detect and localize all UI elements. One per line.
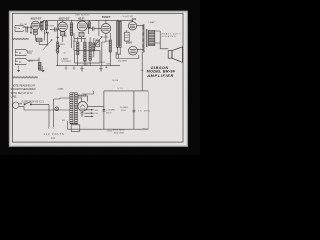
svg-text:NOTE: READINGS AT: NOTE: READINGS AT — [12, 83, 35, 87]
screen resistor pair tall hatched — [117, 21, 119, 47]
cathode resistor V1 box — [33, 30, 37, 35]
pilot lamp — [55, 107, 59, 111]
wire plates to OT — [137, 26, 144, 50]
wire to transformer primary — [44, 98, 70, 110]
svg-text:450 V: 450 V — [106, 113, 112, 115]
plate resistor V2 hatched — [70, 23, 73, 36]
power switch S1 — [25, 102, 31, 105]
ground symbol 1b — [73, 66, 75, 70]
cap below rectifier — [81, 111, 84, 117]
wire AC drop pair — [49, 99, 54, 127]
box below transformer — [71, 125, 80, 132]
wire OT B+ — [143, 51, 145, 52]
resistor hatched below V3 — [84, 42, 86, 61]
wire ground bus — [56, 65, 120, 67]
svg-text:+450 V: +450 V — [141, 128, 148, 130]
svg-text:B-20A: B-20A — [112, 79, 118, 82]
AC plug P1 — [13, 102, 19, 108]
capacitor small box mid — [96, 41, 100, 47]
svg-text:SPKR FIELD: SPKR FIELD — [113, 130, 126, 132]
tube V3 6SJ7 — [77, 21, 87, 31]
volume pot P1 with arrow — [57, 21, 59, 38]
svg-text:C-BATT: C-BATT — [148, 21, 156, 24]
input jack J3 — [15, 59, 27, 65]
label scribble row 2 — [12, 76, 38, 78]
pot arrow diagonal — [95, 37, 102, 46]
svg-text:6SJ7-GT: 6SJ7-GT — [31, 16, 42, 20]
cathode box V2 — [61, 32, 65, 36]
power transformer T2 — [70, 93, 78, 124]
wire transformer to rectifier — [78, 96, 88, 102]
output tube V6 6V6 — [129, 46, 138, 55]
ground symbol 1 — [65, 66, 67, 70]
ground symbol 3 — [99, 66, 102, 71]
resistor hatched at jacks — [38, 63, 41, 71]
svg-text:6V6GT: 6V6GT — [102, 15, 111, 19]
coupling cap C2 — [55, 27, 56, 31]
wire B+ top bus — [44, 19, 134, 21]
wire V1 cathode loop — [39, 33, 49, 45]
ground blob R jacks — [41, 70, 44, 72]
output transformer T1 core and secondary — [145, 29, 148, 47]
cathode parts V2 — [62, 32, 67, 36]
wire cathode V3 down — [81, 37, 83, 42]
svg-text:6SJ7-GT: 6SJ7-GT — [59, 17, 70, 21]
capacitor box between output tubes — [124, 32, 129, 41]
svg-text:1.6 MEG: 1.6 MEG — [120, 107, 129, 109]
svg-text:CONTROL: CONTROL — [61, 61, 72, 63]
svg-text:1MEG: 1MEG — [59, 44, 65, 46]
wire rectifier output — [88, 105, 104, 107]
ground blob J2 — [17, 70, 20, 72]
svg-text:250 OHM: 250 OHM — [118, 61, 127, 63]
svg-text:+ BIAS: + BIAS — [57, 87, 64, 90]
ground symbol 2 — [80, 66, 83, 71]
resistor plate V3 hatched — [88, 22, 90, 28]
svg-text:SW: SW — [62, 120, 65, 122]
svg-text:6SJ7: 6SJ7 — [78, 17, 85, 21]
svg-text:100K: 100K — [50, 26, 55, 28]
coupling cap C3 — [93, 27, 94, 31]
wire V2 cathode to bus — [62, 36, 64, 42]
resistor vertical — [109, 40, 111, 52]
svg-text:1600 OHM: 1600 OHM — [114, 132, 124, 134]
wire rectifier plate to filter box top — [82, 91, 94, 94]
wire plate load down — [42, 30, 45, 41]
svg-text:WITH SET AT 117V: WITH SET AT 117V — [11, 91, 33, 95]
wire node B+ riser — [142, 51, 144, 91]
resistor small mid — [93, 43, 95, 51]
svg-text:250K: 250K — [106, 41, 111, 43]
svg-text:+ 16 MFD: + 16 MFD — [106, 110, 116, 112]
wire cathode down — [34, 35, 36, 41]
filter box — [67, 91, 148, 129]
resistor R grid V1 with arrow — [30, 26, 32, 34]
svg-text:INST.: INST. — [28, 61, 33, 63]
wire jacks to amp — [27, 51, 39, 63]
svg-text:INST.: INST. — [28, 51, 33, 53]
cathode V4 — [102, 33, 109, 42]
cap C4 — [103, 109, 106, 111]
svg-text:110 VOLTS: 110 VOLTS — [44, 133, 64, 136]
cathode box V3 — [79, 32, 84, 36]
svg-text:LINE.: LINE. — [11, 94, 18, 98]
input jack J1 — [15, 26, 25, 32]
svg-text:250V: 250V — [121, 110, 126, 112]
svg-text:SPEAKER: SPEAKER — [162, 35, 176, 38]
rectifier tube V7 — [78, 102, 88, 112]
svg-text:6V6: 6V6 — [128, 42, 133, 45]
svg-text:5 Y 3: 5 Y 3 — [118, 88, 124, 90]
tube V4 6V6 — [101, 24, 111, 34]
capacitor C below V1 — [36, 38, 42, 41]
resistor R screen V1 hatched — [45, 21, 47, 29]
pot arrow long V1 volume — [43, 40, 52, 50]
wire output-stage rail — [116, 52, 139, 59]
tube V1 6SJ7 — [31, 21, 40, 30]
paper page — [9, 11, 187, 146]
svg-text:A.C.: A.C. — [51, 137, 56, 140]
black scan surround — [0, 0, 200, 155]
border frame — [12, 13, 183, 142]
output transformer T1 primary winding — [143, 24, 145, 51]
node junction dots on B+ bus — [96, 19, 118, 21]
label scribble row 1 — [12, 38, 29, 40]
arrow taps B+ — [84, 109, 92, 110]
tone network box on bus — [75, 51, 101, 64]
resistor hatched left of V3 — [77, 42, 79, 55]
wire OT secondary to speaker — [155, 31, 168, 49]
input jack J2 — [15, 50, 27, 56]
speaker SP1 — [168, 51, 172, 59]
wire switch to transformer — [22, 104, 49, 110]
resistor hatched below V2 pot — [57, 42, 59, 53]
svg-text:SOCKETS MEASURED: SOCKETS MEASURED — [11, 87, 36, 91]
svg-text:470K: 470K — [100, 62, 105, 64]
wire V1 plate to B+ — [40, 20, 44, 23]
pot arrow on V2 volume — [56, 46, 60, 51]
wire jack to grid — [23, 26, 32, 28]
svg-text:AMPLIFIER: AMPLIFIER — [146, 74, 173, 78]
svg-text:HEAVY DUTY: HEAVY DUTY — [162, 32, 182, 35]
resistor R plate V1 (hatched bar) — [41, 21, 44, 29]
svg-text:R-1 5M: R-1 5M — [20, 24, 27, 26]
svg-text:(USE 110V 60 CY): (USE 110V 60 CY) — [22, 100, 44, 103]
ground symbol 4 — [105, 66, 107, 68]
svg-text:T-BASS: T-BASS — [61, 57, 69, 60]
wire grid V3 long vertical — [74, 33, 86, 51]
cap C5 — [133, 110, 136, 112]
resistor vertical mid — [89, 42, 91, 60]
tube V2 6SJ7 — [58, 22, 67, 31]
capacitor C1 — [26, 26, 28, 32]
svg-text:USE. 6SJ7-GT: USE. 6SJ7-GT — [75, 14, 90, 16]
output tube V5 6V6 — [128, 22, 136, 30]
svg-text:16 MFD: 16 MFD — [138, 110, 150, 112]
wire V2 plate — [62, 20, 64, 22]
